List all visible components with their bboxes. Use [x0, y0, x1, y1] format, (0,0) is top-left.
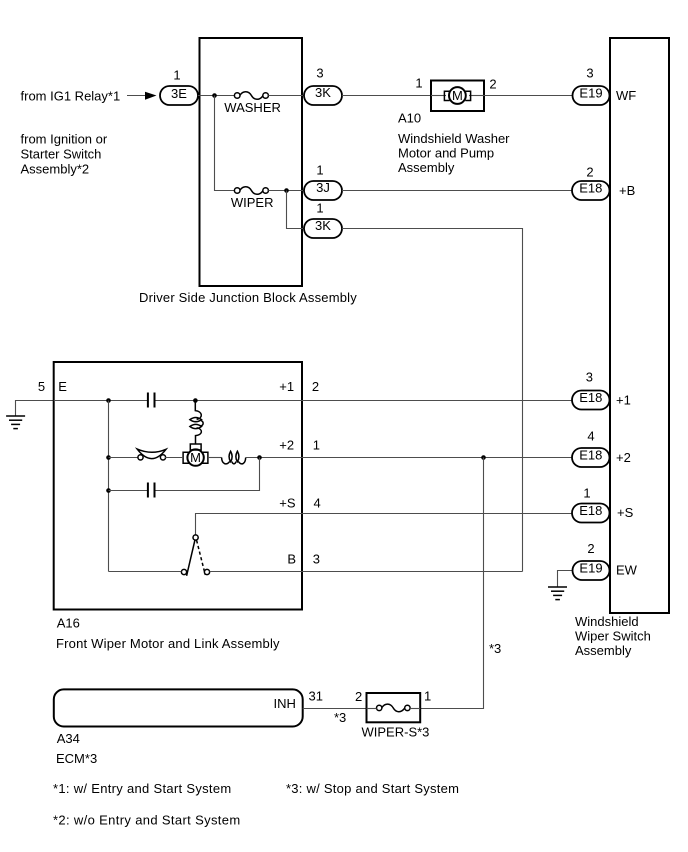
wire: node (286.7,190.6) down to 3K lower: [287, 191, 305, 229]
svg-text:from Ignition or: from Ignition or: [21, 131, 108, 146]
pin 1 of connector 3J: [316, 163, 323, 178]
svg-text:E18: E18: [579, 180, 602, 195]
svg-text:A10: A10: [398, 111, 421, 126]
junction: node at (286.7,190.6): [284, 188, 289, 193]
pin 2 of connector E18 (+B): [586, 165, 593, 180]
value label: WIPER-S*3: [362, 724, 430, 739]
junction: bus node (108,490): [106, 488, 111, 493]
capacitor C2 (noise, lower): [148, 483, 155, 498]
note: *3 w/ Stop and Start System: [286, 781, 459, 796]
node label: +B: [619, 183, 635, 198]
svg-text:1: 1: [424, 688, 431, 703]
wire: E row (+1 net) from left edge through capacitor out to E18: [54, 400, 147, 402]
value label: WASHER: [224, 100, 281, 115]
svg-text:Assembly*2: Assembly*2: [21, 161, 90, 176]
pin 1 of washer motor A10: [415, 76, 422, 91]
svg-text:from IG1 Relay*1: from IG1 Relay*1: [21, 89, 121, 104]
svg-text:E18: E18: [579, 390, 602, 405]
svg-text:EW: EW: [616, 562, 638, 577]
node label: +S / pin 4: [279, 496, 320, 511]
label: ECM*3: [56, 751, 97, 766]
pin 1 of connector E18 (+S): [583, 485, 590, 500]
wire: WIPER fuse to 3J: [268, 190, 304, 192]
wire: 3K to A10 pin 1: [342, 95, 431, 97]
node label: +1 / pin 2: [279, 379, 319, 394]
svg-text:1: 1: [583, 485, 590, 500]
pin 4 of connector E18 (+2): [587, 428, 594, 443]
junction: bus node (108,457.5): [106, 455, 111, 460]
label: from IG1 Relay*1: [21, 89, 121, 104]
wire: A10 pin 2 to E19: [484, 95, 573, 97]
washer motor A10 box: [431, 81, 484, 112]
pin 1 of connector 3K lower: [316, 201, 323, 216]
wire: lower capacitor branch left: [109, 490, 148, 492]
fuse WIPER-S: [367, 693, 421, 722]
node label: WF: [616, 88, 636, 103]
wire: 3E to WASHER fuse: [198, 95, 235, 97]
svg-text:2: 2: [489, 77, 496, 92]
wire: +2 net out of A16 to E18: [302, 457, 572, 459]
svg-text:3J: 3J: [316, 180, 330, 195]
svg-text:*1: w/ Entry and Start System: *1: w/ Entry and Start System: [53, 781, 232, 796]
inductor L2 (horizontal choke): [208, 451, 246, 464]
pin 1 of fuse WIPER-S: [424, 688, 431, 703]
connector 3K (washer output): [304, 85, 342, 105]
net label: *3 (vertical wire): [489, 641, 501, 656]
connector E18 (+B): [572, 180, 610, 200]
svg-text:3: 3: [586, 370, 593, 385]
note: *2 w/o Entry and Start System: [53, 812, 241, 827]
connector E18 (+2): [572, 448, 610, 467]
ground: EW terminal: [548, 571, 573, 600]
svg-text:1: 1: [415, 76, 422, 91]
box: A16 Front Wiper Motor: [54, 362, 302, 610]
svg-text:+2: +2: [279, 438, 294, 453]
svg-text:E19: E19: [579, 85, 602, 100]
wire: park switch right contact to B pin out to (522,571.5): [210, 571, 523, 573]
svg-text:*2: w/o Entry and Start System: *2: w/o Entry and Start System: [53, 812, 241, 827]
pin 2 of washer motor A10: [489, 77, 496, 92]
svg-text:Windshield Washer: Windshield Washer: [398, 131, 510, 146]
svg-text:5: 5: [38, 379, 45, 394]
label: Windshield Wiper Switch Assembly: [575, 614, 651, 658]
label: from Ignition or Starter Switch Assembly*2: [21, 131, 108, 176]
circuit breaker (bimetal): [137, 449, 166, 460]
pin 2 of connector E19 (EW): [587, 541, 594, 556]
svg-text:4: 4: [314, 496, 321, 511]
svg-text:+B: +B: [619, 183, 635, 198]
svg-text:31: 31: [309, 688, 323, 703]
node label: B / pin 3: [287, 552, 320, 567]
svg-text:WIPER-S*3: WIPER-S*3: [362, 724, 430, 739]
junction: node at (214,96): [212, 93, 217, 98]
svg-text:3K: 3K: [315, 218, 331, 233]
label: Windshield Washer Motor and Pump Assembly: [398, 131, 510, 175]
node label: +2 (switch side): [616, 450, 631, 465]
wire: bus from node (214,96) down to WIPER fuse: [215, 96, 235, 191]
node label: E: [58, 379, 67, 394]
note: *1 w/ Entry and Start System: [53, 781, 232, 796]
connector E18 (+S): [572, 503, 610, 522]
svg-text:WF: WF: [616, 88, 636, 103]
wire: IG1 feed into 3E with arrowhead: [127, 92, 157, 100]
wire: +S net from park switch to E18: [196, 514, 573, 536]
svg-text:+1: +1: [279, 379, 294, 394]
svg-text:*3: w/ Stop and Start System: *3: w/ Stop and Start System: [286, 781, 459, 796]
pin 31 of A34: [309, 688, 323, 703]
fuse WIPER: [234, 187, 268, 195]
pin 3 of connector E18 (+1): [586, 370, 593, 385]
svg-text:2: 2: [312, 379, 319, 394]
svg-text:Wiper Switch: Wiper Switch: [575, 629, 651, 644]
wire: breaker to motor: [165, 457, 183, 459]
svg-text:+S: +S: [279, 496, 296, 511]
pin 3 of connector 3K: [316, 66, 323, 81]
svg-text:2: 2: [586, 165, 593, 180]
svg-text:Windshield: Windshield: [575, 614, 639, 629]
svg-text:E18: E18: [579, 448, 602, 463]
label: Front Wiper Motor and Link Assembly: [56, 636, 280, 651]
svg-text:+2: +2: [616, 450, 631, 465]
box: Windshield Wiper Switch Assembly: [610, 38, 669, 613]
net label: *3 (INH wire): [334, 710, 346, 725]
svg-text:WASHER: WASHER: [224, 100, 281, 115]
connector 3K (wiper output): [304, 218, 342, 238]
connector E19 (EW): [573, 561, 610, 581]
svg-text:1: 1: [316, 163, 323, 178]
svg-text:+S: +S: [617, 505, 634, 520]
label: A10: [398, 111, 421, 126]
wire: 3J to E18 (+B net): [342, 190, 572, 192]
wire: lower capacitor branch right up to +2 node: [156, 458, 260, 491]
svg-text:A16: A16: [57, 616, 80, 631]
node label: +S (switch side): [617, 505, 634, 520]
connector E18 (+1): [572, 390, 610, 409]
svg-text:Starter Switch: Starter Switch: [21, 146, 102, 161]
svg-text:*3: *3: [334, 710, 346, 725]
svg-text:3K: 3K: [315, 85, 331, 100]
svg-text:WIPER: WIPER: [231, 195, 274, 210]
svg-text:+1: +1: [616, 392, 631, 407]
junction: node (195.4,400): [193, 398, 198, 403]
box: A34 ECM (rounded): [54, 689, 303, 726]
svg-text:B: B: [287, 552, 296, 567]
svg-text:3: 3: [586, 66, 593, 81]
svg-text:Front Wiper Motor and Link Ass: Front Wiper Motor and Link Assembly: [56, 636, 280, 651]
wire: 3K lower right then down to B wire (x=522): [342, 229, 523, 572]
ground: A16 E terminal: [6, 401, 53, 429]
pin 5 of A16: [38, 379, 45, 394]
connector 3J: [304, 180, 342, 200]
svg-text:1: 1: [313, 438, 320, 453]
svg-text:1: 1: [316, 201, 323, 216]
svg-text:Motor and Pump: Motor and Pump: [398, 146, 494, 161]
svg-text:3E: 3E: [171, 86, 187, 101]
node label: EW: [616, 562, 638, 577]
park switch SW1: [181, 535, 209, 576]
label: A16: [57, 616, 80, 631]
svg-text:M: M: [452, 88, 463, 103]
fuse WASHER: [234, 92, 268, 100]
svg-text:E18: E18: [579, 503, 602, 518]
connector E19 (WF): [573, 85, 610, 105]
svg-text:INH: INH: [274, 696, 296, 711]
motor M1 (washer pump): [431, 87, 484, 104]
wire: *3 net vertical (WIPER-S to +2): [420, 458, 483, 709]
label: A34: [57, 731, 80, 746]
svg-text:*3: *3: [489, 641, 501, 656]
wire: INH to WIPER-S fuse: [303, 708, 367, 710]
svg-text:ECM*3: ECM*3: [56, 751, 97, 766]
svg-text:2: 2: [355, 689, 362, 704]
svg-text:1: 1: [173, 68, 180, 83]
svg-text:Assembly: Assembly: [575, 643, 632, 658]
wire: bus to park switch left contact: [109, 571, 182, 573]
junction: +2 inner node (259.2,457.5): [257, 455, 262, 460]
svg-text:M: M: [190, 450, 201, 465]
value label: WIPER: [231, 195, 274, 210]
junction: *3 tap on +2 net: [481, 455, 486, 460]
wire: internal bus of A16: [108, 401, 110, 572]
junction: bus top node (108,400): [106, 398, 111, 403]
svg-text:Driver Side Junction Block Ass: Driver Side Junction Block Assembly: [139, 290, 357, 305]
svg-text:A34: A34: [57, 731, 80, 746]
svg-text:4: 4: [587, 428, 594, 443]
motor M2 (wiper motor): [183, 444, 208, 466]
pin 1 of connector 3E: [173, 68, 180, 83]
node label: +1 (switch side): [616, 392, 631, 407]
svg-text:2: 2: [587, 541, 594, 556]
label: Driver Side Junction Block Assembly: [139, 290, 357, 305]
wire: inductor to +2 node: [246, 457, 302, 459]
node label: INH: [274, 696, 296, 711]
pin 2 of fuse WIPER-S: [355, 689, 362, 704]
svg-text:Assembly: Assembly: [398, 160, 455, 175]
pin 3 of connector E19 (WF): [586, 66, 593, 81]
inductor L1 (vertical choke): [190, 401, 203, 445]
svg-text:3: 3: [313, 552, 320, 567]
wire: WASHER fuse to 3K: [268, 95, 304, 97]
node label: +2 / pin 1: [279, 438, 320, 453]
svg-text:E: E: [58, 379, 67, 394]
svg-text:E19: E19: [579, 561, 602, 576]
connector 3E: [160, 86, 198, 105]
capacitor C1 (noise, upper): [148, 393, 155, 408]
svg-text:3: 3: [316, 66, 323, 81]
box: Driver Side Junction Block: [200, 38, 303, 286]
wire: bus to breaker: [109, 457, 138, 459]
